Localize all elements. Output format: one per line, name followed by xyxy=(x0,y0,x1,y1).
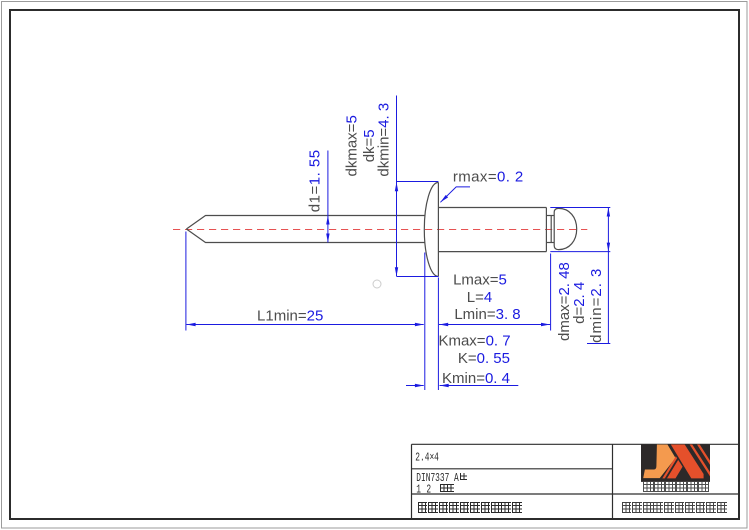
svg-text:dmin=2. 3: dmin=2. 3 xyxy=(588,268,605,343)
svg-text:dkmin=4. 3: dkmin=4. 3 xyxy=(376,103,393,177)
svg-text:dkmax=5: dkmax=5 xyxy=(343,115,360,176)
svg-text:Lmax=5: Lmax=5 xyxy=(453,271,507,288)
svg-text:d1=1. 55: d1=1. 55 xyxy=(307,149,324,212)
svg-text:K=0. 55: K=0. 55 xyxy=(458,350,510,367)
svg-text:Kmin=0. 4: Kmin=0. 4 xyxy=(442,370,510,387)
svg-text:rmax=0. 2: rmax=0. 2 xyxy=(453,168,524,185)
svg-text:Kmax=0. 7: Kmax=0. 7 xyxy=(438,333,510,350)
svg-text:L=4: L=4 xyxy=(467,289,492,306)
svg-text:Lmin=3. 8: Lmin=3. 8 xyxy=(454,306,520,323)
svg-text:L1min=25: L1min=25 xyxy=(257,308,323,325)
svg-text:d=2. 4: d=2. 4 xyxy=(571,282,588,324)
svg-text:2.4×4: 2.4×4 xyxy=(415,451,439,465)
svg-text:1 2: 1 2 xyxy=(416,483,431,497)
